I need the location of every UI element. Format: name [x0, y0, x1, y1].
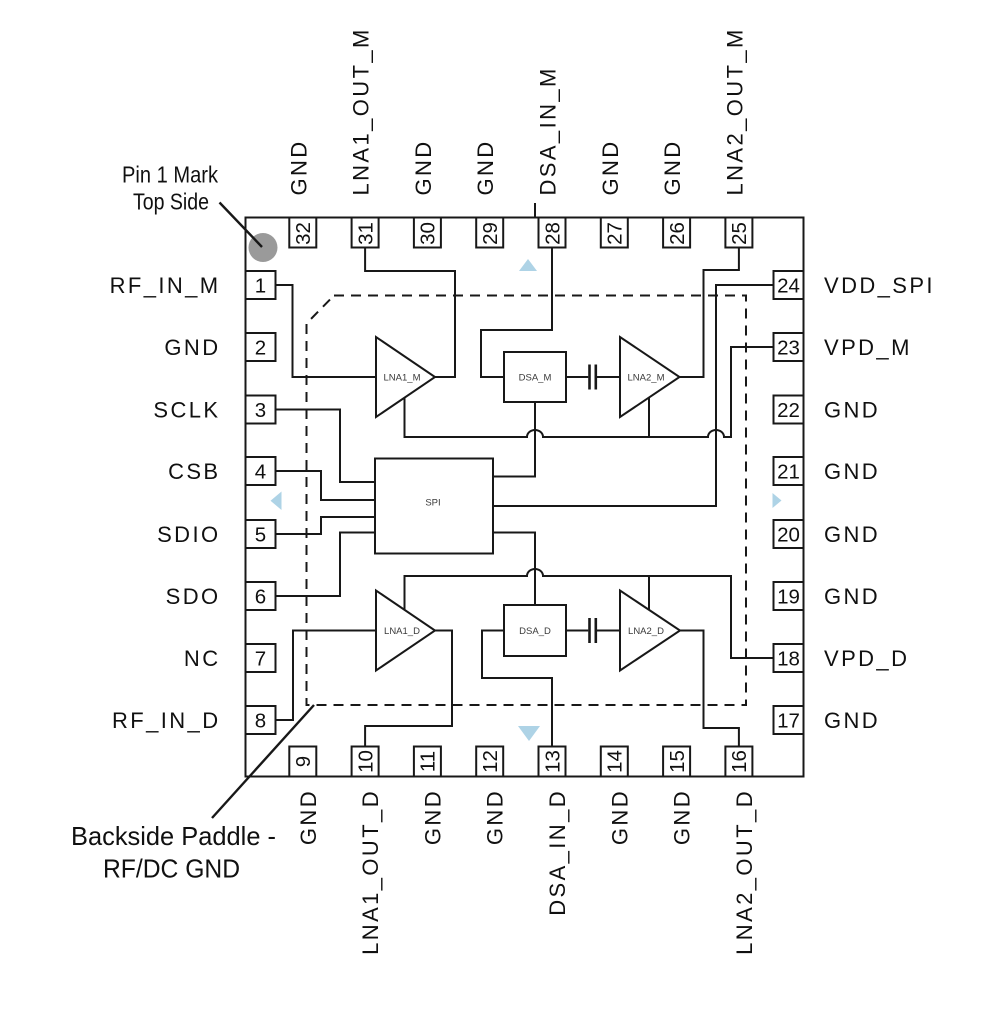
node marker: right arrow — [773, 493, 782, 508]
svg-text:19: 19 — [777, 585, 800, 608]
op-amp LNA1_M — [376, 337, 435, 417]
wire pin 6 SDO to SPI — [276, 533, 376, 597]
svg-text:GND: GND — [607, 789, 632, 845]
op-amp LNA1_D — [376, 591, 435, 671]
svg-text:SPI: SPI — [425, 498, 440, 509]
wire LNA2_D bias branch — [648, 576, 650, 610]
svg-text:VDD_SPI: VDD_SPI — [824, 273, 935, 298]
svg-text:GND: GND — [420, 789, 445, 845]
pin 30 box — [414, 218, 441, 248]
wire pin 5 SDIO to SPI — [276, 517, 376, 534]
node marker: down arrow (D path) — [518, 726, 540, 741]
pin 21 box — [774, 457, 804, 485]
wire DSA_D output to coupling cap — [566, 630, 588, 632]
wire LNA2_M bias branch — [648, 398, 650, 438]
wire pin1 RF_IN_M to LNA1_M input — [276, 285, 377, 377]
wire pin 13 DSA_IN_D to DSA_D input — [482, 631, 552, 747]
wire DSA_M output to coupling cap — [566, 376, 588, 378]
svg-text:25: 25 — [728, 222, 751, 245]
svg-text:Backside Paddle -: Backside Paddle - — [71, 821, 276, 851]
pin 10 box — [352, 747, 379, 777]
pin 1 mark circle — [249, 233, 278, 262]
svg-text:RF_IN_D: RF_IN_D — [112, 708, 221, 733]
svg-text:LNA2_M: LNA2_M — [628, 373, 665, 384]
block DSA_M — [504, 352, 566, 402]
svg-text:CSB: CSB — [168, 459, 220, 484]
svg-text:GND: GND — [411, 139, 436, 195]
wire cap to LNA2_D input — [597, 630, 620, 632]
svg-text:GND: GND — [164, 335, 220, 360]
pin 2 box — [246, 333, 276, 361]
svg-text:GND: GND — [296, 789, 321, 845]
svg-text:13: 13 — [541, 750, 564, 773]
svg-text:29: 29 — [479, 222, 502, 245]
svg-text:LNA1_D: LNA1_D — [384, 626, 420, 637]
wire VPD_M pin 23 bias line with hops — [405, 347, 774, 437]
svg-text:GND: GND — [824, 584, 880, 609]
pin 7 box — [246, 644, 276, 672]
svg-text:18: 18 — [777, 647, 800, 670]
svg-text:GND: GND — [824, 398, 880, 423]
svg-text:LNA1_OUT_M: LNA1_OUT_M — [349, 27, 374, 195]
pin 22 box — [774, 396, 804, 424]
svg-text:LNA2_OUT_D: LNA2_OUT_D — [732, 789, 757, 955]
svg-text:RF_IN_M: RF_IN_M — [110, 273, 221, 298]
svg-text:32: 32 — [292, 222, 315, 245]
svg-text:SDO: SDO — [166, 584, 221, 609]
svg-text:RF/DC GND: RF/DC GND — [103, 854, 240, 884]
svg-text:DSA_IN_M: DSA_IN_M — [536, 66, 561, 195]
pin 20 box — [774, 520, 804, 548]
op-amp LNA2_D — [620, 591, 680, 671]
wire VDD_SPI pin 24 to SPI — [493, 285, 774, 506]
svg-text:NC: NC — [184, 646, 221, 671]
pin 31 box — [352, 218, 379, 248]
pin 3 box — [246, 396, 276, 424]
block SPI — [375, 459, 493, 554]
svg-text:GND: GND — [598, 139, 623, 195]
svg-text:GND: GND — [670, 789, 695, 845]
svg-text:23: 23 — [777, 336, 800, 359]
pin 9 box — [289, 747, 316, 777]
pin 8 box — [246, 706, 276, 734]
pin 29 box — [476, 218, 503, 248]
svg-text:Pin 1 Mark: Pin 1 Mark — [122, 162, 218, 188]
pin 28 box — [539, 218, 566, 248]
op-amp LNA2_M — [620, 337, 680, 417]
svg-text:11: 11 — [417, 751, 440, 772]
svg-text:16: 16 — [728, 750, 751, 773]
pin 12 box — [476, 747, 503, 777]
svg-text:26: 26 — [666, 222, 689, 245]
svg-text:GND: GND — [483, 789, 508, 845]
node marker: left arrow — [271, 492, 282, 511]
svg-text:GND: GND — [824, 708, 880, 733]
pin 14 box — [601, 747, 628, 777]
svg-text:6: 6 — [255, 585, 266, 608]
svg-text:VPD_M: VPD_M — [824, 335, 912, 360]
svg-text:LNA1_OUT_D: LNA1_OUT_D — [358, 789, 383, 955]
svg-text:20: 20 — [777, 523, 800, 546]
svg-text:10: 10 — [354, 750, 377, 773]
svg-text:21: 21 — [777, 460, 800, 483]
svg-text:22: 22 — [777, 399, 800, 422]
pin 4 box — [246, 457, 276, 485]
wire LNA2_D output to pin 16 LNA2_OUT_D — [680, 631, 739, 747]
svg-text:GND: GND — [824, 459, 880, 484]
wire VPD_D pin 18 bias line with hop — [405, 569, 774, 658]
node marker: up arrow (M path) — [519, 259, 537, 271]
pin 17 box — [774, 706, 804, 734]
wire pin 4 CSB to SPI — [276, 471, 376, 500]
pin 25 box — [725, 218, 752, 248]
svg-text:17: 17 — [777, 709, 800, 732]
pin 24 box — [774, 271, 804, 299]
svg-text:LNA2_D: LNA2_D — [628, 626, 664, 637]
capacitor C-D plates — [588, 618, 591, 643]
pin 27 box — [601, 218, 628, 248]
pin 5 box — [246, 520, 276, 548]
svg-text:9: 9 — [292, 756, 315, 767]
svg-text:GND: GND — [473, 139, 498, 195]
svg-text:7: 7 — [255, 647, 266, 670]
svg-text:GND: GND — [660, 139, 685, 195]
pin 23 box — [774, 333, 804, 361]
svg-text:LNA1_M: LNA1_M — [384, 373, 421, 384]
wire LNA2_M output to pin 25 LNA2_OUT_M — [680, 248, 739, 378]
svg-text:DSA_D: DSA_D — [519, 626, 551, 637]
block DSA_D — [504, 605, 566, 656]
chip package outline — [246, 218, 804, 777]
wire cap to LNA2_M input — [597, 376, 620, 378]
wire pin 8 RF_IN_D to LNA1_D input — [276, 631, 377, 721]
pin 18 box — [774, 644, 804, 672]
capacitor C-M plates — [588, 365, 591, 390]
svg-text:GND: GND — [824, 522, 880, 547]
wire LNA1_M output to pin 31 LNA1_OUT_M — [365, 248, 455, 378]
svg-text:GND: GND — [286, 139, 311, 195]
svg-text:5: 5 — [255, 523, 266, 546]
svg-text:12: 12 — [479, 750, 502, 773]
svg-text:LNA2_OUT_M: LNA2_OUT_M — [722, 27, 747, 195]
DSA_IN_M label leader line to pin 28 — [534, 203, 536, 218]
wire SPI to DSA_M control — [493, 402, 535, 477]
pin 11 box — [414, 747, 441, 777]
svg-text:SCLK: SCLK — [153, 398, 220, 423]
svg-text:Top Side: Top Side — [133, 189, 209, 215]
svg-text:27: 27 — [604, 222, 627, 245]
pin 15 box — [663, 747, 690, 777]
svg-text:3: 3 — [255, 399, 266, 422]
svg-text:DSA_IN_D: DSA_IN_D — [545, 789, 570, 916]
svg-text:15: 15 — [666, 750, 689, 773]
svg-text:8: 8 — [255, 709, 266, 732]
svg-text:4: 4 — [255, 460, 266, 483]
pin 1 box — [246, 271, 276, 299]
wire pin 3 SCLK to SPI — [276, 410, 376, 483]
backside paddle leader line — [212, 705, 314, 818]
pin 26 box — [663, 218, 690, 248]
svg-text:30: 30 — [417, 222, 440, 245]
svg-text:14: 14 — [604, 750, 627, 773]
svg-text:VPD_D: VPD_D — [824, 646, 909, 671]
wire pin 28 DSA_IN_M to DSA_M input — [481, 248, 552, 378]
wire SPI to DSA_D control — [493, 533, 535, 606]
svg-text:31: 31 — [354, 222, 377, 245]
pin 6 box — [246, 582, 276, 610]
svg-text:24: 24 — [777, 274, 800, 297]
pin 32 box — [289, 218, 316, 248]
pin 19 box — [774, 582, 804, 610]
svg-text:28: 28 — [541, 222, 564, 245]
svg-text:2: 2 — [255, 336, 266, 359]
pin 13 box — [539, 747, 566, 777]
wire LNA1_D output to pin 10 LNA1_OUT_D — [365, 631, 452, 747]
svg-text:SDIO: SDIO — [157, 522, 220, 547]
svg-text:DSA_M: DSA_M — [519, 373, 552, 384]
pin 1 mark leader line — [220, 203, 263, 248]
pin 16 box — [725, 747, 752, 777]
svg-text:1: 1 — [255, 274, 266, 297]
backside paddle (dashed, chamfered pin-1 corner) — [307, 296, 747, 706]
